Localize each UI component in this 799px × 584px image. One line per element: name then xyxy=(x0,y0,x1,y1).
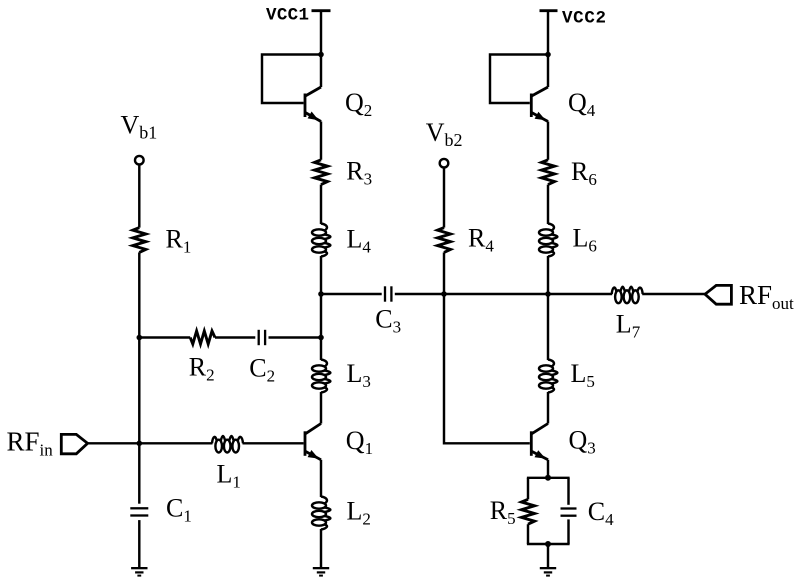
wire xyxy=(88,442,140,444)
wire xyxy=(547,294,549,360)
wire xyxy=(527,478,529,500)
node R2C2 right xyxy=(318,335,324,341)
inductor L1 xyxy=(212,436,243,453)
inductor L6 xyxy=(539,224,557,257)
wire xyxy=(243,442,304,444)
power terminal VCC1 xyxy=(266,6,331,26)
inductor L4 xyxy=(312,224,330,257)
wire xyxy=(547,460,549,478)
wire xyxy=(547,256,549,294)
wire xyxy=(443,252,445,294)
wire xyxy=(269,336,322,338)
label C1 xyxy=(166,494,192,526)
wire xyxy=(320,256,322,294)
wire xyxy=(321,293,382,295)
wire xyxy=(527,524,529,544)
wire xyxy=(320,529,322,568)
node R5C4 bottom xyxy=(545,541,551,547)
label L2 xyxy=(347,497,371,529)
ground xyxy=(131,567,147,577)
capacitor C3 xyxy=(384,286,393,301)
wire xyxy=(547,392,549,424)
label L5 xyxy=(571,359,595,391)
node R2 branch xyxy=(137,335,143,341)
wire xyxy=(547,185,549,224)
resistor R3 xyxy=(315,160,328,185)
ground xyxy=(540,567,556,577)
resistor R6 xyxy=(542,160,555,185)
inductor L2 xyxy=(312,497,330,530)
node Q2 collector xyxy=(318,52,324,58)
wire xyxy=(547,56,549,87)
terminal V_b2 xyxy=(426,118,463,168)
node R5C4 top xyxy=(545,475,551,481)
transistor Q3 xyxy=(530,424,548,460)
wire xyxy=(567,478,569,505)
wire xyxy=(567,519,569,544)
wire xyxy=(139,442,212,444)
wire Q2 feedback loop xyxy=(262,55,321,104)
wire xyxy=(139,336,190,338)
label R4 xyxy=(468,223,494,255)
wire xyxy=(320,56,322,87)
label L3 xyxy=(347,359,371,391)
node Vb2 rail xyxy=(441,291,447,297)
wire xyxy=(547,11,549,55)
wire xyxy=(444,293,548,295)
wire xyxy=(547,544,549,568)
terminal V_b1 xyxy=(121,111,158,165)
wire R5C4 bottom rail xyxy=(527,543,570,545)
label L1 xyxy=(217,459,241,491)
wire Q4 feedback loop xyxy=(490,55,548,104)
wire Q3 base feed xyxy=(444,294,530,443)
resistor R5 xyxy=(522,499,535,524)
capacitor C2 xyxy=(258,330,267,345)
transistor Q4 xyxy=(530,87,548,122)
inductor L5 xyxy=(539,360,557,393)
inductor L7 xyxy=(612,287,643,304)
wire xyxy=(138,252,140,337)
wire xyxy=(138,165,140,228)
wire xyxy=(548,293,612,295)
node input xyxy=(137,441,143,447)
label R6 xyxy=(571,157,597,189)
wire R5C4 top rail xyxy=(527,477,570,479)
port RF_out xyxy=(705,280,794,313)
label Q2 xyxy=(345,88,372,120)
wire xyxy=(320,122,322,160)
svg-text:VCC1: VCC1 xyxy=(266,6,309,26)
ground xyxy=(313,567,329,577)
label C3 xyxy=(375,305,401,337)
label R5 xyxy=(490,496,516,528)
transistor Q2 xyxy=(304,87,321,122)
transistor Q1 xyxy=(304,424,321,460)
node stage1 output xyxy=(318,291,324,297)
resistor R2 xyxy=(190,331,215,344)
node stage2 output xyxy=(545,291,551,297)
wire xyxy=(642,293,705,295)
inductor L3 xyxy=(312,360,330,393)
power terminal VCC2 xyxy=(540,9,607,29)
label R2 xyxy=(189,352,215,384)
wire xyxy=(320,11,322,55)
label C4 xyxy=(588,497,614,529)
wire xyxy=(138,520,140,568)
label L6 xyxy=(573,223,597,255)
label Q3 xyxy=(569,425,596,457)
resistor R4 xyxy=(438,228,451,253)
label Q1 xyxy=(346,426,373,458)
node Q4 collector xyxy=(545,52,551,58)
capacitor C1 xyxy=(130,507,148,516)
capacitor C4 xyxy=(561,507,577,516)
resistor R1 xyxy=(133,228,146,253)
label L4 xyxy=(347,224,372,256)
label L7 xyxy=(616,310,641,342)
label Q4 xyxy=(568,88,596,120)
port RF_in xyxy=(7,427,88,460)
label C2 xyxy=(249,353,275,385)
wire xyxy=(138,338,140,444)
svg-text:VCC2: VCC2 xyxy=(562,9,606,29)
wire xyxy=(215,336,255,338)
label R1 xyxy=(166,224,192,256)
wire xyxy=(138,443,140,503)
wire xyxy=(320,294,322,360)
wire xyxy=(320,460,322,497)
wire xyxy=(320,392,322,424)
wire xyxy=(395,293,444,295)
wire xyxy=(320,185,322,224)
wire xyxy=(443,168,445,228)
wire xyxy=(547,122,549,160)
label R3 xyxy=(346,157,372,189)
